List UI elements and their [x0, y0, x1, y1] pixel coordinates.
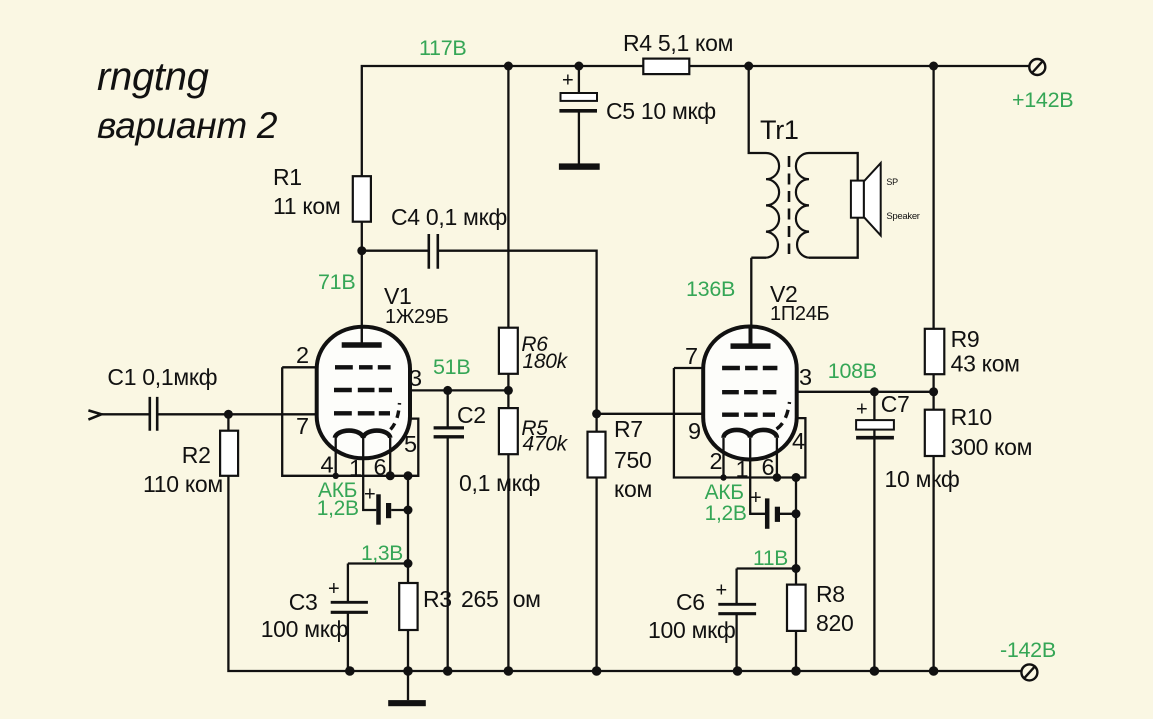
svg-text:C3: C3 — [289, 589, 318, 615]
svg-text:1Ж29Б: 1Ж29Б — [385, 306, 449, 328]
svg-text:C1 0,1мкф: C1 0,1мкф — [107, 364, 217, 390]
svg-text:ком: ком — [614, 476, 652, 502]
svg-text:C7: C7 — [881, 391, 910, 417]
svg-text:rngtng: rngtng — [97, 55, 209, 99]
svg-text:180k: 180k — [523, 350, 569, 373]
svg-text:6: 6 — [374, 454, 387, 480]
svg-text:R10: R10 — [951, 404, 992, 430]
svg-text:9: 9 — [688, 418, 701, 444]
svg-text:+: + — [716, 580, 727, 602]
svg-text:C4 0,1 мкф: C4 0,1 мкф — [391, 204, 507, 230]
svg-text:136В: 136В — [686, 277, 735, 301]
svg-text:1,2В: 1,2В — [317, 497, 359, 520]
svg-text:3: 3 — [799, 364, 812, 390]
svg-text:+142В: +142В — [1012, 88, 1073, 112]
svg-text:750: 750 — [614, 447, 651, 473]
svg-text:4: 4 — [321, 452, 334, 478]
svg-text:R7: R7 — [614, 416, 643, 442]
svg-text:10 мкф: 10 мкф — [885, 466, 960, 492]
svg-text:R1: R1 — [273, 164, 302, 190]
svg-text:C6: C6 — [676, 589, 705, 615]
svg-text:110 ком: 110 ком — [143, 471, 223, 497]
svg-text:R2: R2 — [182, 442, 211, 468]
svg-text:ом: ом — [513, 586, 541, 612]
svg-text:100 мкф: 100 мкф — [261, 616, 348, 642]
svg-text:R3: R3 — [423, 586, 452, 612]
svg-text:Tr1: Tr1 — [760, 115, 799, 145]
svg-text:820: 820 — [816, 610, 853, 636]
svg-text:R4 5,1 ком: R4 5,1 ком — [623, 30, 733, 56]
svg-text:1,3В: 1,3В — [361, 542, 403, 565]
svg-text:71В: 71В — [318, 270, 355, 294]
svg-text:2: 2 — [710, 448, 723, 474]
svg-text:+: + — [750, 487, 761, 509]
svg-text:4: 4 — [792, 428, 805, 454]
svg-text:+: + — [562, 70, 573, 92]
svg-text:300 ком: 300 ком — [951, 434, 1033, 460]
svg-text:11 ком: 11 ком — [273, 193, 340, 219]
svg-text:7: 7 — [685, 343, 698, 369]
svg-text:11В: 11В — [753, 547, 788, 570]
svg-text:+: + — [328, 578, 339, 600]
svg-text:+: + — [364, 484, 375, 506]
svg-text:-142В: -142В — [1000, 638, 1056, 662]
svg-text:0,1 мкф: 0,1 мкф — [459, 470, 540, 496]
svg-text:вариант 2: вариант 2 — [97, 105, 278, 146]
svg-text:1,2В: 1,2В — [705, 502, 747, 525]
svg-text:5: 5 — [404, 431, 417, 457]
svg-text:+: + — [856, 399, 867, 421]
svg-text:3: 3 — [409, 365, 422, 391]
svg-text:6: 6 — [762, 454, 775, 480]
svg-text:SP: SP — [886, 177, 898, 187]
svg-text:АКБ: АКБ — [705, 481, 744, 504]
svg-text:100 мкф: 100 мкф — [648, 617, 735, 643]
svg-text:1П24Б: 1П24Б — [770, 303, 830, 325]
svg-text:7: 7 — [296, 413, 309, 439]
svg-text:R8: R8 — [816, 581, 845, 607]
svg-text:265: 265 — [461, 586, 498, 612]
svg-text:108В: 108В — [828, 359, 877, 383]
svg-text:C2: C2 — [457, 402, 486, 428]
svg-text:51В: 51В — [433, 355, 470, 379]
svg-text:43 ком: 43 ком — [951, 351, 1020, 377]
svg-text:1: 1 — [736, 456, 749, 482]
svg-text:C5 10 мкф: C5 10 мкф — [606, 98, 716, 124]
svg-text:Speaker: Speaker — [886, 211, 919, 222]
svg-text:R9: R9 — [951, 326, 980, 352]
svg-text:1: 1 — [349, 455, 362, 481]
svg-text:117В: 117В — [419, 36, 466, 60]
svg-text:470k: 470k — [523, 433, 569, 456]
svg-text:2: 2 — [296, 342, 309, 368]
